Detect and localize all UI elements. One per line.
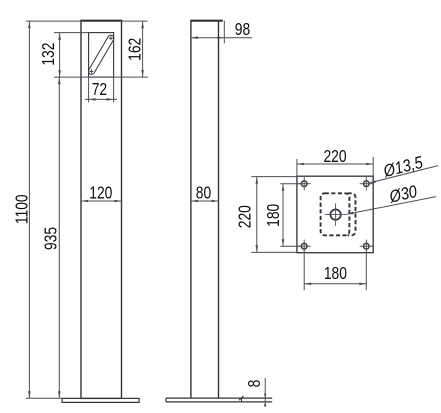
svg-text:220: 220 xyxy=(236,205,255,228)
svg-text:Ø13,5: Ø13,5 xyxy=(381,154,425,182)
svg-text:132: 132 xyxy=(40,43,59,66)
svg-text:Ø30: Ø30 xyxy=(387,183,419,207)
svg-text:98: 98 xyxy=(235,21,250,40)
svg-text:8: 8 xyxy=(246,380,265,388)
svg-text:220: 220 xyxy=(323,148,346,167)
svg-text:935: 935 xyxy=(42,227,61,250)
svg-text:1100: 1100 xyxy=(13,194,32,224)
svg-text:120: 120 xyxy=(89,184,112,203)
svg-text:180: 180 xyxy=(324,264,347,283)
svg-text:180: 180 xyxy=(264,203,283,226)
svg-text:162: 162 xyxy=(126,38,145,61)
svg-text:72: 72 xyxy=(92,80,107,99)
svg-text:80: 80 xyxy=(196,184,212,203)
